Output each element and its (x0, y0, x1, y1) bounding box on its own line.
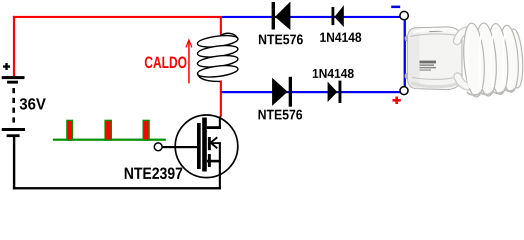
label 1N4148 (middle) (313, 69, 354, 78)
battery B1 bottom cell long plate (2, 128, 25, 131)
gate input terminal (open circle) (154, 143, 162, 151)
transistor Q1 source stub (207, 160, 221, 163)
diode D2 1N4148 triangle (334, 5, 343, 27)
diode D3 NTE576 cathode bar (289, 77, 292, 107)
label NTE2397 (125, 167, 183, 179)
lamp spiral highlights (467, 29, 506, 89)
lamp: CFL bulb photo (405, 22, 524, 97)
diode D4 1N4148 cathode bar (339, 81, 342, 103)
lamp spiral bottom shadows (468, 89, 515, 95)
label NTE576 (middle) (259, 110, 303, 120)
inductor L1 (coil) (197, 33, 239, 81)
battery B1 top cell short plate (7, 81, 18, 84)
wire: bottom rail black (13, 187, 221, 189)
label NTE576 (top) (259, 34, 303, 44)
lamp spiral turn 5 (right end cap) (506, 29, 524, 89)
transistor Q1 NTE2397 envelope circle (175, 115, 238, 178)
battery B1 plus sign (3, 63, 10, 70)
wire: gate lead (162, 146, 197, 148)
lamp base top highlight (413, 29, 456, 32)
wire: top rail red segment (battery + to coil node) (13, 16, 222, 18)
lamp spiral turn 4 (498, 25, 521, 93)
lamp spiral turn 1 (461, 22, 486, 97)
lamp base top slot (429, 29, 443, 32)
lamp base pins (405, 36, 412, 41)
diode D4 1N4148 (middle row, pointing right) triangle (328, 82, 338, 102)
diode D1 NTE576 triangle (275, 2, 290, 31)
diode D3 NTE576 (middle row, pointing right) triangle (272, 78, 288, 106)
wire: top rail blue segment (coil node to lamp - terminal) (222, 16, 400, 18)
transistor Q1 body arrow stem (208, 137, 211, 150)
lamp base left cap shading (408, 28, 420, 88)
lamp tube lower arm (458, 77, 478, 87)
diode D1 NTE576 (top row, cathode bar left) (272, 2, 275, 30)
wire: red vertical through coil to MOSFET drain (220, 17, 222, 117)
transistor Q1 source tick (208, 154, 211, 167)
diode D2 1N4148 (top row, cathode bar left) (332, 7, 335, 25)
label 36V (20, 98, 46, 109)
transistor Q1 body arrowhead diagonals (211, 137, 218, 148)
plus sign (red) at lamp + terminal (393, 97, 401, 104)
wire: left black vertical from battery - to bottom rail (13, 137, 15, 190)
lamp + terminal (open circle) (400, 87, 408, 95)
minus sign (blue) at lamp - terminal (391, 6, 400, 9)
battery B1 top cell long plate (2, 76, 25, 79)
lamp - terminal (open circle) (400, 11, 408, 19)
transistor Q1 gate bar (197, 123, 201, 169)
battery B1 bottom cell short plate (7, 134, 20, 137)
wire: blue lamp riser between terminals (404, 20, 406, 88)
gate pulse 3 (143, 120, 149, 140)
transistor Q1 drain stub (207, 126, 221, 129)
gate pulse 2 (105, 120, 111, 140)
wire: left red vertical from + rail down to battery top plate (13, 16, 15, 76)
CALDO arrow (red, up) (188, 41, 190, 83)
lamp base body (408, 27, 462, 90)
gate pulse 1 (67, 120, 73, 140)
wire: source vertical to bottom rail (219, 142, 221, 189)
lamp base label text block (420, 61, 437, 71)
transistor Q1 body line (211, 142, 221, 144)
label 1N4148 (top) (320, 32, 361, 42)
transistor Q1 drain riser (219, 116, 221, 129)
lamp spiral turn 2 (473, 22, 498, 96)
label CALDO (red) (145, 56, 187, 68)
gate pulse waveform baseline (green) (53, 139, 166, 141)
lamp base top seam (410, 34, 458, 37)
battery B1 dashed middle line (12, 88, 15, 123)
lamp base bottom shadow (411, 83, 458, 87)
wire: middle blue rail (coil bottom node to lamp + terminal) (221, 91, 400, 93)
lamp spiral turn 3 (486, 23, 510, 95)
lamp base bottom groove (412, 78, 453, 80)
transistor Q1 channel bar (202, 118, 207, 172)
lamp tube upper arm (457, 31, 474, 41)
